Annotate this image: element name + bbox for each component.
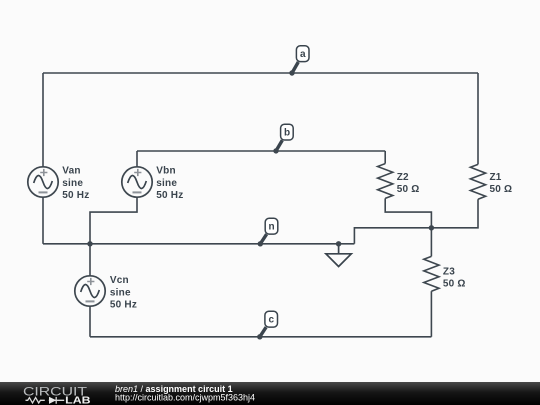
svg-text:Z2: Z2 (397, 172, 409, 183)
footer logo schematic glyph (26, 397, 65, 404)
svg-text:50 Hz: 50 Hz (62, 190, 89, 201)
wire n step to Z junction (354, 228, 431, 244)
wire Z2 top lead (384, 151, 386, 164)
node n flag (258, 218, 278, 246)
node a flag (289, 46, 309, 76)
wire Z2 bottom lead (385, 198, 431, 227)
label Z1 value (490, 172, 513, 195)
label Vbn value (156, 165, 183, 201)
svg-text:http://circuitlab.com/cjwpm5f3: http://circuitlab.com/cjwpm5f363hj4 (115, 393, 255, 403)
svg-text:50 Ω: 50 Ω (443, 279, 466, 290)
junction at Z1 Z2 Z3 node (429, 225, 434, 230)
svg-text:50 Ω: 50 Ω (397, 184, 420, 195)
wire Z1 bottom lead (431, 199, 478, 228)
wire Vbn bottom lead (90, 197, 137, 244)
svg-text:Vcn: Vcn (110, 275, 129, 286)
wire Z3 top lead (430, 228, 432, 257)
wire Vcn top lead (89, 244, 91, 276)
svg-text:Vbn: Vbn (156, 165, 176, 176)
junction at Vcn top (87, 241, 92, 246)
node b flag (273, 124, 293, 153)
svg-text:c: c (269, 315, 275, 326)
junction at ground (336, 241, 341, 246)
svg-text:Z1: Z1 (490, 172, 502, 183)
svg-text:50 Ω: 50 Ω (490, 184, 513, 195)
resistor Z2 (378, 164, 393, 199)
voltage source V1 Van (28, 167, 58, 197)
svg-text:50 Hz: 50 Hz (110, 300, 137, 311)
resistor Z3 (424, 256, 439, 291)
svg-text:sine: sine (156, 178, 177, 189)
wire node n horizontal (43, 243, 354, 245)
svg-text:n: n (269, 222, 275, 233)
svg-text:sine: sine (62, 178, 83, 189)
wire Z1 top lead (477, 73, 479, 164)
footer bar (0, 382, 540, 405)
wire Van bottom lead (42, 197, 44, 244)
svg-text:LAB: LAB (65, 395, 90, 405)
svg-text:sine: sine (110, 287, 131, 298)
wire Vbn top lead (136, 151, 138, 167)
wire node c horizontal (90, 336, 431, 338)
svg-text:Z3: Z3 (443, 267, 455, 278)
wire Vcn bottom lead (89, 306, 91, 337)
wire node b horizontal (137, 150, 385, 152)
voltage source V3 Vcn (75, 276, 105, 306)
resistor Z1 (470, 164, 485, 199)
voltage source V2 Vbn (122, 167, 152, 197)
label Z2 value (397, 172, 420, 195)
node c flag (257, 311, 277, 339)
svg-text:a: a (300, 49, 306, 60)
ground (326, 244, 351, 267)
label Vcn value (110, 275, 137, 311)
wire node a horizontal (43, 72, 478, 74)
svg-text:b: b (284, 128, 290, 139)
svg-text:50 Hz: 50 Hz (156, 190, 183, 201)
wire Van top lead (42, 73, 44, 167)
label Van value (62, 165, 89, 201)
label Z3 value (443, 267, 466, 290)
svg-text:Van: Van (62, 165, 80, 176)
wire Z3 bottom lead (430, 291, 432, 337)
